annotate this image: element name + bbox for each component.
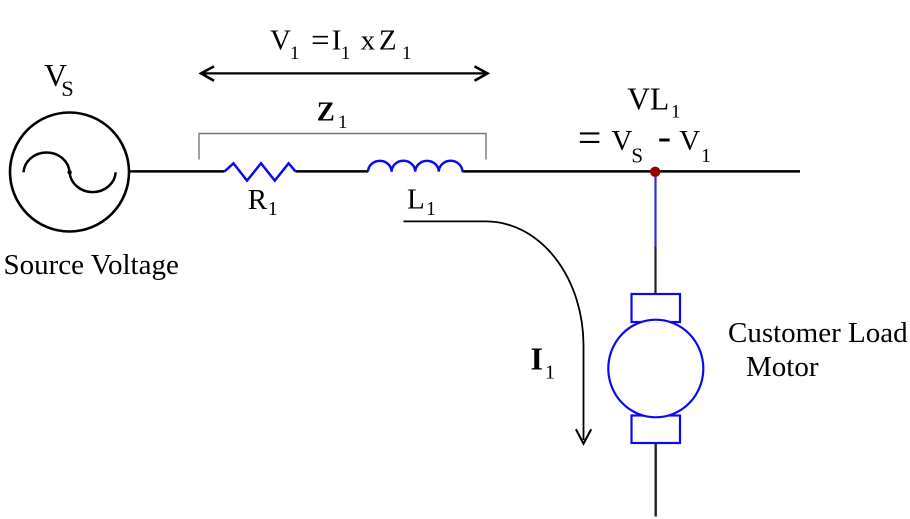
svg-text:Customer Load: Customer Load [728,317,908,349]
svg-text:Source Voltage: Source Voltage [4,249,179,281]
svg-text:R: R [248,184,268,216]
svg-text:L: L [407,183,425,215]
svg-text:S: S [61,76,74,101]
svg-text:I: I [531,341,543,377]
svg-text:=: = [578,116,602,162]
svg-text:1: 1 [268,198,278,220]
svg-text:Z: Z [379,25,397,57]
svg-text:1: 1 [402,43,412,64]
svg-text:1: 1 [341,43,351,64]
svg-text:1: 1 [290,43,300,64]
svg-text:-: - [658,113,671,158]
svg-text:=: = [311,23,330,59]
svg-text:V: V [270,25,291,57]
svg-text:1: 1 [338,112,348,133]
svg-text:1: 1 [701,145,711,167]
svg-text:1: 1 [545,361,555,383]
svg-text:1: 1 [426,198,436,220]
svg-text:1: 1 [671,101,681,122]
svg-text:VL: VL [627,81,669,116]
svg-text:Z: Z [317,97,335,127]
svg-text:V: V [679,125,700,157]
svg-text:V: V [612,125,633,157]
svg-text:Motor: Motor [746,351,819,383]
svg-text:x: x [361,25,376,57]
svg-text:S: S [631,144,643,168]
